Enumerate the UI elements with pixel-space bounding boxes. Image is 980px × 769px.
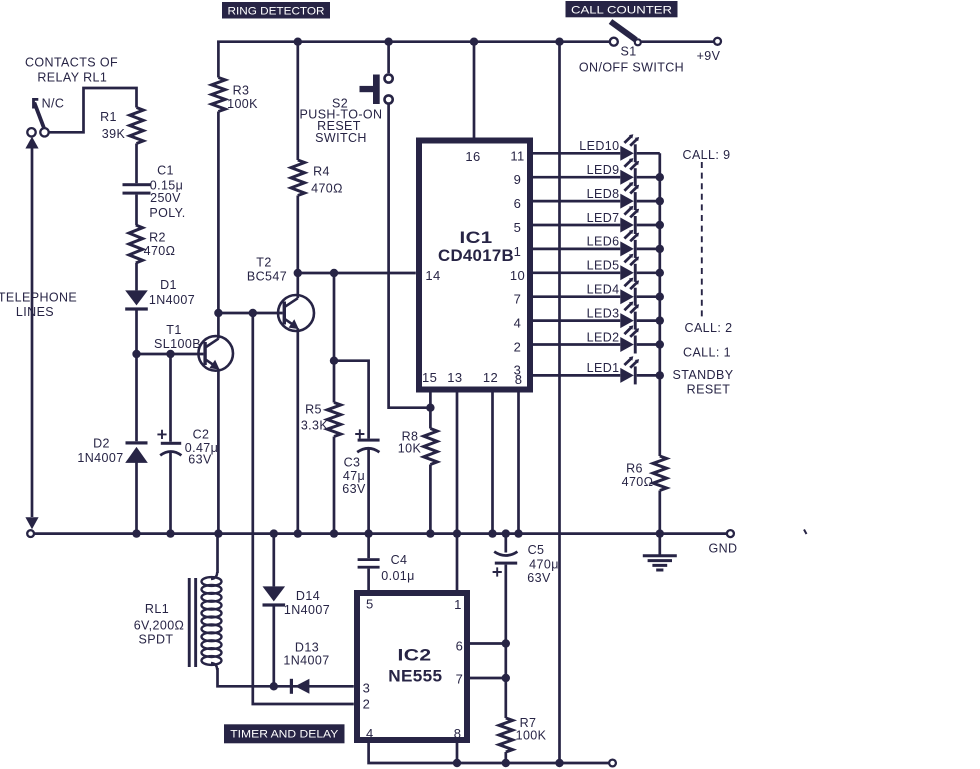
resistor R7 [499,718,513,752]
diode D1 [125,290,148,305]
svg-text:LED2: LED2 [587,330,620,344]
svg-text:RL1: RL1 [145,602,169,616]
svg-text:NE555: NE555 [388,668,442,686]
svg-text:1N4007: 1N4007 [77,451,123,465]
node ground rail / R6 / ground [656,529,664,537]
wire IC2 pin6 [467,642,506,645]
svg-text:LED3: LED3 [587,306,620,320]
wire node A to T1 base [137,353,204,356]
wire C3 to ground rail [367,449,370,533]
svg-text:4: 4 [366,726,374,741]
wire IC1 pin 9 to LED9 [533,176,620,179]
wire D14 to pin3 line [272,606,275,687]
wire C2 to ground rail [169,453,172,534]
relay coil RL1 [188,572,222,670]
wire to R5 [333,273,336,403]
node cathode bus / LED2 [656,340,664,348]
svg-text:RESET: RESET [687,383,731,397]
svg-text:7: 7 [514,292,522,307]
resistor R4 [291,160,305,196]
node pin7 / threshold column [502,674,510,682]
node bottom rail / pin8 [453,759,461,767]
svg-text:1N4007: 1N4007 [284,603,330,617]
wire LED8 to cathode bus [637,200,660,203]
svg-text:63V: 63V [527,571,551,585]
wire T2 collector up [296,273,299,298]
svg-text:C4: C4 [391,553,408,567]
node node A (D1/D2/C2/T1 base) [132,350,140,358]
svg-text:470μ: 470μ [529,558,559,572]
switch S1 [610,22,641,46]
LED LED3 [620,302,639,330]
node pin6 / threshold column [502,639,510,647]
svg-text:C1: C1 [157,163,174,177]
svg-text:R6: R6 [626,462,643,476]
wire R7 to bottom rail [504,752,507,763]
svg-text:T2: T2 [256,256,271,270]
wire top +9V rail [218,40,609,41]
resistor R2 [129,225,143,263]
node ground rail / C2 [166,529,174,537]
svg-text:CALL: 2: CALL: 2 [685,321,733,335]
svg-text:SWITCH: SWITCH [315,131,367,145]
wire IC1 pin12 to ground rail [491,393,494,534]
svg-text:6: 6 [514,196,522,211]
node clock line / R5 [330,269,338,277]
node ground rail / T1 emitter / relay coil [214,529,222,537]
wire S2 to reset pin15 [389,104,427,408]
svg-text:SPDT: SPDT [139,633,174,647]
wire T2 base line to IC2 pin2 [253,313,354,704]
svg-text:R1: R1 [100,110,117,124]
svg-text:470Ω: 470Ω [311,181,343,195]
capacitor C2 [157,430,181,456]
svg-text:LED1: LED1 [587,361,620,375]
title box TIMER AND DELAY [224,724,345,743]
svg-text:D14: D14 [296,589,320,603]
svg-text:LINES: LINES [16,305,54,319]
svg-text:63V: 63V [188,453,212,467]
wire contact to R1 [49,88,137,132]
svg-text:N/C: N/C [42,96,65,110]
wire LED10 to cathode bus [637,152,660,155]
wire IC2 pin4 to bottom rail [369,743,609,763]
wire IC1 pin8 to ground rail [517,393,520,534]
svg-text:LED5: LED5 [587,259,620,273]
wire LED cathode bus [658,153,661,456]
svg-text:1: 1 [454,597,462,612]
IC IC2 NE555 [357,593,467,740]
diode D13 [290,679,293,694]
svg-text:16: 16 [465,149,480,164]
node GND terminal [727,530,734,537]
wire C1 to R2 [135,195,138,225]
svg-text:39K: 39K [102,127,126,141]
wire D2 to ground rail [135,461,138,534]
svg-text:BC547: BC547 [247,270,287,284]
wire IC1 pin 6 to LED8 [533,200,620,203]
node ground rail / R8 [426,529,434,537]
svg-text:250V: 250V [150,191,181,205]
wire ground rail to relay coil [216,534,219,573]
wire rail to R4 [296,42,299,160]
node ground rail / C5 [502,529,510,537]
svg-text:T1: T1 [166,323,181,337]
capacitor C5 [493,552,518,577]
svg-text:100K: 100K [227,97,258,111]
wire R5 to ground rail [333,437,336,534]
wire IC2 pin7 [467,677,506,680]
wire ground rail to C5 [504,534,507,553]
svg-text:+9V: +9V [697,49,721,63]
wire R4 to clock line [296,196,299,274]
wire R1 to C1 [135,144,138,184]
node ground rail / D14 [270,529,278,537]
dashed range line CALL:9 to CALL:2 [701,162,703,317]
wire ground rail to C4 [367,534,370,559]
LED LED8 [620,182,639,210]
wire IC1 pin 2 to LED2 [533,343,620,346]
node bottom rail / supply drop [555,759,563,767]
node node A / C2 tap [166,350,174,358]
svg-text:12: 12 [483,370,498,385]
node R4 / T2 collector / clock line [294,269,302,277]
wire LED1 to cathode bus [637,374,660,377]
wire R8 to ground rail [429,465,432,534]
node ground rail / R5 [330,529,338,537]
svg-text:R5: R5 [305,402,322,416]
svg-text:LED6: LED6 [587,235,620,249]
LED LED5 [620,254,639,282]
wire R2 to D1 [135,263,138,290]
svg-text:LED4: LED4 [587,283,620,297]
wire D1 to node A [135,310,138,354]
wire rail to S2 [387,42,390,73]
wire LED2 to cathode bus [637,343,660,346]
resistor R1 [130,108,144,144]
svg-text:3: 3 [514,363,522,378]
relay armature lever [34,103,45,131]
svg-text:1N4007: 1N4007 [283,653,329,667]
svg-text:RELAY RL1: RELAY RL1 [37,70,107,84]
LED LED4 [620,278,639,306]
svg-text:D2: D2 [93,437,110,451]
wire IC1 pin 10 to LED5 [533,271,620,274]
svg-text:7: 7 [456,671,464,686]
switch S2 push-to-on [360,74,393,104]
svg-text:TIMER AND DELAY: TIMER AND DELAY [230,729,339,741]
svg-text:S1: S1 [620,45,636,59]
wire IC1 pin 4 to LED3 [533,319,620,322]
svg-text:2: 2 [363,697,371,712]
svg-text:C3: C3 [344,456,361,470]
node telephone line terminal [27,530,34,537]
wire node A to D2 [135,354,138,441]
svg-text:47μ: 47μ [343,469,365,483]
wire LED4 to cathode bus [637,295,660,298]
svg-text:0.01μ: 0.01μ [381,569,415,583]
node cathode bus / LED8 [656,197,664,205]
wire C5 to R7 [504,565,507,718]
wire ground rail to IC2 pin1 [456,534,459,590]
svg-text:1N4007: 1N4007 [149,293,195,307]
svg-text:4: 4 [514,316,522,331]
wire rail to R3 [217,42,220,78]
svg-text:LED8: LED8 [587,187,620,201]
resistor R5 [327,403,341,437]
svg-text:6: 6 [456,638,464,653]
diode D2 [126,441,148,444]
wire IC1 pin15 down [429,393,432,429]
svg-text:63V: 63V [342,482,366,496]
node ground rail / pin8 [514,529,522,537]
wire IC1 pin 11 to LED10 [533,152,620,155]
resistor R8 [424,429,438,465]
LED LED6 [620,230,639,258]
svg-text:3: 3 [363,680,371,695]
LED LED1 [620,356,639,384]
svg-text:C2: C2 [193,428,210,442]
LED LED2 [620,325,639,353]
node cathode bus / LED1 [656,371,664,379]
wire IC1 pin 3 to LED1 [533,374,620,377]
node ground rail / C3 / C4 [364,529,372,537]
node TELEPHONE LINES arrow line [25,137,38,530]
svg-text:D1: D1 [160,278,177,292]
svg-text:10K: 10K [398,441,422,455]
relay N/C fixed contact [34,99,39,108]
LED LED7 [620,206,639,234]
wire LED3 to cathode bus [637,319,660,322]
node cathode bus / LED6 [656,245,664,253]
wire T2 emitter to ground rail [296,328,299,533]
wire IC1 pin 5 to LED7 [533,224,620,227]
wire IC2 pin8 to bottom rail [456,743,459,763]
svg-text:RING DETECTOR: RING DETECTOR [228,5,325,17]
stray speck [804,530,807,535]
LED LED10 [620,134,639,162]
svg-text:14: 14 [425,268,440,283]
wire clock line to IC1 pin14 [298,272,416,275]
svg-text:LED10: LED10 [579,139,619,153]
svg-text:13: 13 [447,370,462,385]
ground symbol [643,534,677,570]
node R5 / C3 tap [330,357,338,365]
capacitor C4 [358,558,380,568]
svg-text:R2: R2 [149,230,166,244]
svg-text:2: 2 [514,340,522,355]
wire IC1 pin 1 to LED6 [533,248,620,251]
resistor R3 [212,78,226,112]
svg-text:LED9: LED9 [587,163,620,177]
svg-text:470Ω: 470Ω [144,244,176,258]
wire relay coil to IC2 pin3 [218,668,354,686]
node cathode bus / LED5 [656,269,664,277]
capacitor C1 [123,183,151,194]
wire ground rail to D14 [272,534,275,587]
relay contact throw [40,128,48,136]
IC IC1 CD4017B [419,141,530,390]
svg-text:IC2: IC2 [398,647,432,665]
svg-text:10: 10 [510,268,525,283]
title box CALL COUNTER [566,1,678,17]
node cathode bus / LED9 [656,173,664,181]
node top rail / R4 [294,38,302,46]
capacitor C3 [355,429,379,452]
svg-text:470Ω: 470Ω [622,475,654,489]
wire LED5 to cathode bus [637,271,660,274]
svg-text:6V,200Ω: 6V,200Ω [134,619,185,633]
wire LED7 to cathode bus [637,224,660,227]
svg-text:1: 1 [514,244,522,259]
wire to T2 base [218,312,282,315]
svg-text:R4: R4 [313,165,330,179]
svg-text:SL100B: SL100B [154,337,201,351]
node R3 / T1 collector / T2 base line [214,309,222,317]
svg-text:CALL: 1: CALL: 1 [683,345,731,359]
svg-text:3.3K: 3.3K [301,418,329,432]
node D14 / relay / D13 node [270,682,278,690]
wire R6 to ground rail [658,491,661,534]
svg-text:CONTACTS OF: CONTACTS OF [25,56,118,70]
node pin15 / S2 reset junction [426,404,434,412]
svg-text:GND: GND [709,542,738,556]
node cathode bus / LED4 [656,293,664,301]
wire node A to C2 [169,354,172,442]
svg-text:5: 5 [366,596,374,611]
svg-text:5: 5 [514,220,522,235]
svg-text:100K: 100K [516,729,547,743]
node bottom rail terminal [609,760,616,767]
svg-text:TELEPHONE: TELEPHONE [0,291,77,305]
node ground rail / pin13 / IC2 pin1 [453,529,461,537]
node cathode bus / LED7 [656,221,664,229]
svg-text:11: 11 [510,148,524,163]
node bottom rail / R7 [502,759,510,767]
svg-text:POLY.: POLY. [149,206,185,220]
node ground rail / T2 emitter [294,529,302,537]
svg-text:IC1: IC1 [460,229,493,247]
node cathode bus / LED3 [656,316,664,324]
resistor R6 [653,456,667,491]
wire R3 to T1 collector node [217,112,220,314]
node ground rail / D2 [132,529,140,537]
svg-text:R3: R3 [233,84,250,98]
svg-text:8: 8 [454,726,462,741]
wire IC1 pin13 to ground rail [456,393,459,534]
wire S1 to +9V [641,40,714,43]
svg-text:LED7: LED7 [587,211,620,225]
node top rail / S2 [384,38,392,46]
node T2 base line / IC2 pin2 drop [249,309,257,317]
node top rail / pin16 [470,38,478,46]
LED LED9 [620,158,639,186]
node ground rail / pin12 [488,529,496,537]
wire IC1 pin 7 to LED4 [533,295,620,298]
title box RING DETECTOR [222,2,330,19]
wire C4 to IC2 pin5 [367,569,370,590]
svg-text:C5: C5 [528,543,545,557]
svg-text:D13: D13 [295,640,319,654]
node top rail / long drop [555,38,563,46]
svg-text:CD4017B: CD4017B [438,247,514,265]
svg-text:ON/OFF SWITCH: ON/OFF SWITCH [579,61,684,75]
transistor T1 SL100B [198,336,233,371]
wire T1 collector up [217,313,220,339]
wire to C3 [334,361,369,439]
wire ground rail [34,532,727,535]
svg-text:15: 15 [422,370,437,385]
wire LED9 to cathode bus [637,176,660,179]
svg-text:9: 9 [514,172,522,187]
diode D14 [263,586,286,601]
wire LED6 to cathode bus [637,248,660,251]
relay contact pole [27,128,35,136]
svg-text:STANDBY: STANDBY [673,368,734,382]
wire T1 emitter to ground rail [217,369,220,534]
svg-text:CALL: 9: CALL: 9 [683,148,731,162]
wire +9V drop to IC2 supply rail [558,42,561,763]
node +9V terminal [714,38,721,45]
wire rail to IC1 pin16 [473,42,476,138]
transistor T2 BC547 [278,295,314,331]
svg-text:CALL COUNTER: CALL COUNTER [571,4,672,16]
